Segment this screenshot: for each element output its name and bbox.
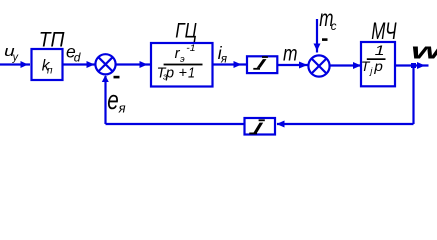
junction dot on output wire — [411, 63, 416, 68]
label u_y input — [4, 43, 18, 64]
svg-text:ГЦ: ГЦ — [175, 20, 197, 43]
summing junction 2 circle — [308, 55, 329, 76]
summing junction 2 X anti-diagonal — [312, 59, 327, 74]
label e_d after TP — [66, 42, 81, 65]
svg-text:э: э — [180, 54, 185, 65]
minus sign at summing junction 1 — [114, 76, 120, 79]
wire feedback vertical right — [412, 66, 414, 125]
wire MCh to output omega — [396, 64, 429, 66]
arrowhead into J1 — [234, 61, 242, 68]
arrowhead into TP — [21, 61, 29, 68]
fraction bar GTs — [164, 64, 203, 66]
svg-text:я: я — [220, 53, 227, 65]
svg-text:p: p — [373, 58, 383, 74]
block J2 (EMF constant) — [245, 118, 276, 135]
label e_ya feedback — [107, 85, 125, 115]
wire summing junction 2 to MCh block — [331, 64, 362, 66]
svg-text:у: у — [12, 51, 19, 63]
arrowhead on output omega — [417, 62, 425, 69]
block MCh (mechanical part) — [361, 42, 395, 86]
arrowhead up into summing junction 1 from feedback — [102, 75, 109, 82]
arrowhead into GTs — [140, 61, 148, 68]
minus sign at summing junction 2 — [322, 38, 328, 41]
arrowhead into summing junction 2 — [299, 62, 308, 69]
wire input u to TP block — [0, 63, 30, 65]
wire summing junction 1 to GTs block — [115, 63, 150, 65]
label J2 stem — [254, 123, 264, 133]
svg-text:w: w — [411, 38, 437, 63]
wire m_c drop into summing junction 2 — [316, 19, 318, 53]
svg-text:-1: -1 — [186, 43, 195, 54]
svg-text:c: c — [331, 21, 337, 33]
label J1 stem — [257, 59, 267, 68]
svg-text:d: d — [74, 50, 81, 64]
wire GTs to J1 block — [214, 63, 249, 65]
svg-text:п: п — [47, 65, 53, 76]
svg-text:1: 1 — [188, 65, 195, 81]
denominator T_e p + 1 — [157, 65, 195, 81]
label k_p inside TP — [42, 57, 53, 76]
label m_c load torque — [319, 5, 337, 33]
arrowhead down into summing junction 2 from m_c — [314, 44, 321, 52]
svg-text:m: m — [283, 42, 298, 66]
label J1 inside block: top bar — [262, 56, 268, 58]
summing junction 1 circle — [95, 54, 115, 74]
label i_ya after GTs — [218, 43, 227, 65]
summing junction 1 X anti-diagonal — [98, 57, 112, 71]
wire J1 to summing junction 2 — [277, 64, 308, 66]
denominator T_j p of MCh — [361, 58, 383, 77]
label J2 foot — [249, 133, 257, 135]
label J1 foot — [253, 68, 260, 70]
arrowhead left into J2 — [277, 121, 285, 128]
svg-text:МЧ: МЧ — [371, 18, 397, 45]
block TP (thyristor converter) — [32, 49, 63, 80]
wire feedback bottom left segment — [106, 123, 245, 125]
label J2 inside feedback block: top bar — [259, 119, 265, 121]
svg-text:1: 1 — [375, 42, 385, 58]
summing junction 2 X diagonal — [312, 59, 327, 74]
svg-text:я: я — [118, 101, 126, 116]
wire feedback bottom right segment — [277, 123, 414, 125]
wire feedback vertical left to summing junction 1 — [104, 76, 106, 124]
numerator r_e^-1 — [175, 43, 196, 65]
wire TP to summing junction 1 — [63, 63, 95, 65]
arrowhead into summing junction 1 — [87, 61, 95, 68]
svg-text:+: + — [179, 65, 187, 81]
summing junction 1 X diagonal — [98, 57, 112, 71]
block J1 (torque constant) — [247, 56, 277, 73]
svg-text:ТП: ТП — [39, 29, 65, 52]
block GTs (armature circuit) — [151, 43, 213, 87]
fraction bar MCh — [367, 58, 386, 60]
arrowhead into MCh — [353, 62, 361, 69]
svg-text:e: e — [107, 85, 119, 115]
svg-text:p: p — [165, 65, 174, 81]
